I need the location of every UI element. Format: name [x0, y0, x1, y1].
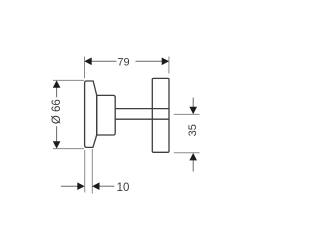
svg-text:35: 35 — [187, 124, 199, 136]
svg-text:10: 10 — [117, 182, 130, 194]
svg-text:Ø 66: Ø 66 — [51, 99, 63, 124]
svg-text:79: 79 — [117, 57, 129, 69]
